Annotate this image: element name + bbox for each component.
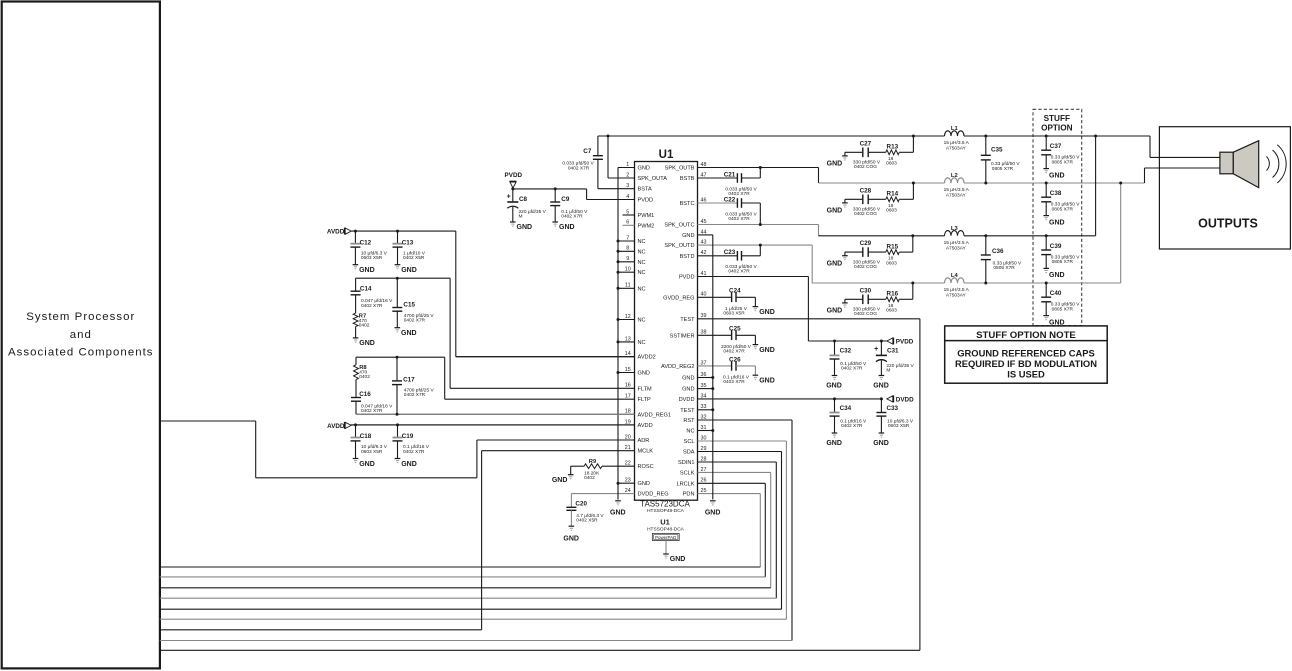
svg-text:26: 26 bbox=[701, 478, 707, 484]
pin 47 (BSTB) bbox=[680, 172, 738, 182]
svg-text:HTSSOP48-DCA: HTSSOP48-DCA bbox=[647, 527, 685, 533]
svg-text:SCL: SCL bbox=[684, 439, 695, 445]
junction pin 7 bbox=[617, 240, 620, 243]
svg-text:GND: GND bbox=[401, 461, 417, 468]
svg-text:0603 X5R: 0603 X5R bbox=[361, 449, 383, 455]
ground (C29) bbox=[827, 252, 848, 267]
resistor R14 bbox=[886, 191, 900, 214]
capacitor C14 bbox=[351, 278, 394, 313]
svg-text:0805 X7R: 0805 X7R bbox=[992, 166, 1014, 172]
wire R7 gnd bbox=[355, 327, 357, 338]
wire SPK_OUTA vertical bbox=[607, 136, 609, 178]
junction pin 15 bbox=[617, 371, 620, 374]
svg-text:15 μH/3.5 A: 15 μH/3.5 A bbox=[944, 240, 970, 246]
capacitor C9 bbox=[550, 189, 588, 222]
op-amp U1 body (TAS5723DCA) bbox=[635, 149, 698, 500]
wire SDIN1 bus bbox=[160, 462, 777, 598]
svg-text:15 μH/3.5 A: 15 μH/3.5 A bbox=[944, 287, 970, 293]
svg-text:16: 16 bbox=[625, 383, 631, 389]
pin 48 (SPK_OUTB) bbox=[665, 162, 819, 172]
pin 7 (NC) bbox=[618, 235, 646, 245]
svg-text:12: 12 bbox=[625, 314, 631, 320]
svg-text:GND: GND bbox=[1049, 219, 1065, 226]
svg-text:8: 8 bbox=[626, 246, 629, 252]
ground (C32) bbox=[826, 376, 842, 390]
svg-text:39: 39 bbox=[701, 313, 707, 319]
ground (C9) bbox=[552, 222, 574, 231]
svg-text:GND: GND bbox=[670, 556, 686, 563]
resistor R13 bbox=[886, 144, 900, 167]
svg-text:C23: C23 bbox=[724, 249, 736, 256]
pin 30 (SCL) bbox=[684, 435, 787, 445]
svg-text:SPK_OUTD: SPK_OUTD bbox=[664, 243, 694, 249]
junction pin 9 bbox=[617, 260, 620, 263]
svg-text:L1: L1 bbox=[951, 126, 959, 132]
junction pin 11 bbox=[617, 287, 620, 290]
svg-text:0402 X7R: 0402 X7R bbox=[361, 408, 383, 414]
svg-text:GND: GND bbox=[826, 440, 842, 447]
wire RST bus bbox=[160, 420, 792, 641]
svg-text:R13: R13 bbox=[887, 144, 899, 151]
capacitor C20 bbox=[566, 494, 604, 527]
svg-text:GND: GND bbox=[638, 166, 650, 172]
wire TEST bus bbox=[160, 319, 920, 651]
svg-text:0402 X7R: 0402 X7R bbox=[568, 165, 590, 171]
ground (left bus) bbox=[610, 501, 626, 517]
junction pin 36 bbox=[711, 376, 714, 379]
svg-text:0402 COG: 0402 COG bbox=[854, 211, 877, 217]
svg-text:GND: GND bbox=[827, 208, 843, 215]
junction C33 bbox=[880, 397, 883, 400]
svg-text:0402 X7R: 0402 X7R bbox=[404, 392, 426, 398]
svg-text:PWM2: PWM2 bbox=[638, 223, 655, 229]
svg-text:5: 5 bbox=[626, 209, 629, 215]
junction C29 bbox=[911, 234, 914, 237]
pin 9 (NC) bbox=[618, 256, 646, 266]
pin 34 (DVDD) bbox=[679, 393, 882, 403]
svg-text:GND: GND bbox=[1049, 319, 1065, 326]
svg-text:C37: C37 bbox=[1050, 143, 1062, 150]
ground (C37) bbox=[1043, 169, 1064, 180]
svg-text:31: 31 bbox=[701, 425, 707, 431]
ground (PowerPAD) bbox=[663, 554, 685, 563]
svg-text:FLTP: FLTP bbox=[638, 397, 652, 403]
pin 17 (FLTP) bbox=[445, 394, 651, 404]
svg-text:GROUND REFERENCED CAPS: GROUND REFERENCED CAPS bbox=[957, 347, 1095, 358]
svg-text:PVDD: PVDD bbox=[896, 339, 914, 346]
ground (C33) bbox=[873, 433, 889, 447]
svg-text:C32: C32 bbox=[840, 347, 852, 354]
svg-text:C22: C22 bbox=[724, 196, 736, 203]
svg-text:PVDD: PVDD bbox=[505, 172, 523, 179]
svg-text:C40: C40 bbox=[1050, 290, 1062, 297]
svg-text:AVDD: AVDD bbox=[327, 229, 345, 236]
svg-text:2: 2 bbox=[626, 172, 629, 178]
junction pin 33 bbox=[711, 408, 714, 411]
capacitor C25 bbox=[721, 326, 755, 355]
svg-text:0603 X5R: 0603 X5R bbox=[888, 423, 910, 429]
svg-text:27: 27 bbox=[701, 467, 707, 473]
pin 26 (LRCLK) bbox=[676, 478, 765, 488]
pin 22 (ROSC) bbox=[602, 461, 654, 471]
resistor R8 bbox=[354, 357, 371, 380]
svg-text:C20: C20 bbox=[575, 501, 587, 508]
svg-text:C29: C29 bbox=[860, 240, 872, 247]
svg-text:+: + bbox=[507, 194, 511, 201]
svg-text:0805 X7R: 0805 X7R bbox=[1052, 206, 1074, 212]
svg-text:NC: NC bbox=[638, 239, 646, 245]
svg-text:BSTD: BSTD bbox=[680, 254, 695, 260]
capacitor C32 bbox=[830, 341, 867, 376]
ground (C13) bbox=[395, 265, 417, 274]
pin 3 (BSTA) bbox=[598, 183, 652, 193]
svg-text:L3: L3 bbox=[951, 226, 959, 232]
svg-text:SSTIMER: SSTIMER bbox=[670, 333, 695, 339]
svg-text:AVDD: AVDD bbox=[638, 423, 653, 429]
svg-text:AVDD: AVDD bbox=[327, 423, 345, 430]
wire rail OUTC b bbox=[964, 235, 1096, 237]
pin 8 (NC) bbox=[618, 246, 646, 256]
capacitor C26 bbox=[723, 356, 755, 385]
capacitor C16 bbox=[351, 380, 393, 415]
svg-text:0402 X7R: 0402 X7R bbox=[361, 303, 383, 309]
svg-text:U1: U1 bbox=[659, 149, 674, 161]
svg-text:0603 X5R: 0603 X5R bbox=[723, 311, 745, 317]
svg-text:SPK_OUTA: SPK_OUTA bbox=[638, 176, 668, 182]
wire AVDD rail bbox=[351, 231, 634, 357]
svg-text:0805 X7R: 0805 X7R bbox=[993, 265, 1015, 271]
capacitor C27 bbox=[845, 140, 886, 170]
pin 6 (PWM2) bbox=[623, 220, 655, 230]
ground (R7) bbox=[353, 338, 375, 347]
wire SCL bus bbox=[160, 441, 787, 619]
wire OUTC up to OUTA bbox=[1095, 136, 1097, 236]
svg-text:M: M bbox=[886, 368, 890, 374]
node DVDD bbox=[887, 396, 914, 404]
svg-text:C39: C39 bbox=[1050, 243, 1062, 250]
pin 39 (TEST) bbox=[680, 313, 920, 323]
svg-text:GND: GND bbox=[682, 387, 694, 393]
svg-text:IS USED: IS USED bbox=[1007, 369, 1045, 380]
resistor R7 bbox=[353, 313, 370, 328]
svg-text:BSTA: BSTA bbox=[638, 187, 652, 193]
svg-text:C31: C31 bbox=[887, 347, 899, 354]
svg-text:NC: NC bbox=[638, 340, 646, 346]
junction C27 bbox=[912, 135, 915, 138]
pin 41 (PVDD) bbox=[679, 271, 808, 281]
inductor L1 bbox=[944, 126, 970, 152]
svg-text:45: 45 bbox=[701, 219, 707, 225]
svg-text:0402 X5R: 0402 X5R bbox=[576, 518, 598, 524]
svg-text:29: 29 bbox=[701, 446, 707, 452]
svg-text:SDA: SDA bbox=[683, 450, 695, 456]
svg-text:0402 X7R: 0402 X7R bbox=[561, 213, 583, 219]
svg-text:C12: C12 bbox=[360, 239, 372, 246]
svg-text:GND: GND bbox=[359, 461, 375, 468]
capacitor C18 bbox=[351, 425, 388, 459]
wire SPK_OUTC feed bbox=[818, 225, 820, 236]
wire PDN bus bbox=[160, 494, 761, 567]
svg-text:GND: GND bbox=[559, 224, 575, 231]
ground (right bus) bbox=[705, 501, 721, 517]
svg-text:A7503AY: A7503AY bbox=[946, 193, 967, 199]
pin 31 (NC) bbox=[686, 425, 712, 435]
svg-text:41: 41 bbox=[701, 271, 707, 277]
wire OUTB to speaker bbox=[1145, 168, 1220, 183]
svg-text:C36: C36 bbox=[992, 248, 1004, 255]
wire SCLK bus bbox=[160, 472, 771, 587]
junction C17 bottom bbox=[396, 413, 399, 416]
capacitor C23 bbox=[724, 244, 762, 275]
svg-text:0603: 0603 bbox=[886, 208, 897, 214]
svg-text:C38: C38 bbox=[1050, 190, 1062, 197]
svg-text:0805 X7R: 0805 X7R bbox=[1052, 159, 1074, 165]
pin 38 (SSTIMER) bbox=[670, 330, 732, 340]
pin 2 (SPK_OUTA) bbox=[608, 172, 667, 182]
pin 33 (TEST) bbox=[680, 404, 713, 414]
wire rail OUTA c bbox=[964, 135, 1150, 137]
ground (C28) bbox=[827, 199, 848, 214]
svg-text:AVDD_REG2: AVDD_REG2 bbox=[661, 364, 694, 370]
svg-text:FLTM: FLTM bbox=[638, 386, 653, 392]
capacitor C35 bbox=[981, 135, 1021, 185]
svg-text:L4: L4 bbox=[951, 273, 959, 279]
svg-text:OPTION: OPTION bbox=[1041, 123, 1072, 132]
svg-text:0402 X7R: 0402 X7R bbox=[723, 349, 745, 355]
inductor L4 bbox=[944, 273, 970, 299]
capacitor C15 bbox=[392, 278, 434, 328]
svg-text:33: 33 bbox=[701, 404, 707, 410]
STUFF OPTION NOTE box bbox=[945, 326, 1107, 383]
junction C18 bbox=[354, 423, 357, 426]
svg-text:C25: C25 bbox=[729, 326, 741, 333]
svg-text:C13: C13 bbox=[402, 239, 414, 246]
svg-text:30: 30 bbox=[701, 435, 707, 441]
svg-text:1: 1 bbox=[626, 162, 629, 168]
ground (C39) bbox=[1043, 268, 1064, 279]
pin 32 (RST) bbox=[683, 414, 792, 424]
System Processor block bbox=[2, 2, 160, 669]
svg-text:GND: GND bbox=[873, 440, 889, 447]
svg-text:0402 X7R: 0402 X7R bbox=[728, 269, 750, 275]
capacitor C38 bbox=[1041, 182, 1080, 216]
svg-text:C35: C35 bbox=[991, 147, 1003, 154]
ground (C27) bbox=[827, 152, 848, 167]
svg-text:L2: L2 bbox=[951, 173, 958, 179]
U1 PowerPAD bbox=[647, 517, 685, 540]
svg-text:R14: R14 bbox=[887, 191, 899, 198]
junction pin 31 bbox=[711, 429, 714, 432]
pin 28 (SDIN1) bbox=[678, 456, 776, 466]
svg-text:LRCLK: LRCLK bbox=[676, 481, 694, 487]
svg-text:M: M bbox=[519, 213, 523, 219]
wire rail OUTA bbox=[598, 135, 914, 137]
junction pin 23 bbox=[617, 482, 620, 485]
svg-text:44: 44 bbox=[701, 229, 707, 235]
svg-text:GND: GND bbox=[682, 376, 694, 382]
svg-text:0402 X7R: 0402 X7R bbox=[728, 216, 750, 222]
svg-text:6: 6 bbox=[626, 220, 629, 226]
svg-text:0402 X7R: 0402 X7R bbox=[723, 379, 745, 385]
svg-text:ADR: ADR bbox=[638, 438, 650, 444]
svg-text:GND: GND bbox=[517, 224, 533, 231]
svg-text:GND: GND bbox=[759, 309, 775, 316]
svg-text:A7503AY: A7503AY bbox=[946, 146, 967, 152]
wire LRCLK bus bbox=[160, 483, 766, 577]
svg-text:46: 46 bbox=[701, 197, 707, 203]
wire OUTD up to OUTB bbox=[1120, 183, 1122, 283]
svg-text:SCLK: SCLK bbox=[680, 470, 695, 476]
svg-text:TEST: TEST bbox=[680, 317, 695, 323]
svg-text:PWM1: PWM1 bbox=[638, 213, 655, 219]
wire PowerPAD gnd bbox=[665, 541, 667, 555]
svg-text:GND: GND bbox=[1049, 272, 1065, 279]
ground (C8) bbox=[510, 222, 532, 231]
pin 11 (NC) bbox=[618, 283, 646, 293]
svg-text:15 μH/3.5 A: 15 μH/3.5 A bbox=[944, 140, 970, 146]
svg-text:0402 X5R: 0402 X5R bbox=[403, 255, 425, 261]
ground (R9) bbox=[552, 475, 574, 485]
wire SPK_OUTB feed bbox=[760, 168, 818, 184]
svg-text:REQUIRED IF BD MODULATION: REQUIRED IF BD MODULATION bbox=[955, 358, 1097, 369]
ground (C40) bbox=[1043, 316, 1064, 327]
svg-text:0402 X7R: 0402 X7R bbox=[404, 318, 426, 324]
OUTPUTS block bbox=[1159, 127, 1290, 249]
wire PVDD branch bbox=[808, 277, 886, 342]
svg-text:System Processor: System Processor bbox=[26, 311, 135, 323]
wire C28 branch bbox=[899, 183, 913, 199]
svg-text:34: 34 bbox=[701, 393, 707, 399]
svg-text:GND: GND bbox=[827, 260, 843, 267]
wire rail OUTD bbox=[812, 282, 944, 284]
pin 25 (PDN) bbox=[683, 488, 761, 498]
capacitor C37 bbox=[1041, 135, 1080, 169]
svg-text:0402 COG: 0402 COG bbox=[854, 264, 877, 270]
svg-text:NC: NC bbox=[686, 429, 694, 435]
svg-text:GND: GND bbox=[359, 267, 375, 274]
junction SPK_OUTA rail bbox=[607, 135, 610, 138]
pin 42 (BSTD) bbox=[680, 250, 738, 260]
svg-text:C26: C26 bbox=[729, 356, 741, 363]
svg-text:3: 3 bbox=[626, 183, 629, 189]
svg-text:GND: GND bbox=[827, 161, 843, 168]
svg-text:0402 X7R: 0402 X7R bbox=[841, 423, 863, 429]
svg-text:DVDD: DVDD bbox=[679, 397, 695, 403]
svg-text:GND: GND bbox=[873, 382, 889, 389]
svg-text:9: 9 bbox=[626, 256, 629, 262]
pin 46 (BSTC) bbox=[680, 197, 738, 207]
svg-text:GND: GND bbox=[638, 371, 650, 377]
svg-text:RST: RST bbox=[683, 418, 695, 424]
pin 29 (SDA) bbox=[683, 446, 782, 456]
junction C9 bbox=[554, 187, 557, 190]
svg-text:37: 37 bbox=[701, 360, 707, 366]
pin 27 (SCLK) bbox=[680, 467, 771, 477]
inductor L2 bbox=[944, 173, 970, 199]
svg-text:C21: C21 bbox=[724, 171, 736, 178]
junction pin 13 bbox=[617, 340, 620, 343]
svg-text:0402 X7R: 0402 X7R bbox=[403, 449, 425, 455]
svg-text:GND: GND bbox=[827, 308, 843, 315]
svg-text:GND: GND bbox=[401, 267, 417, 274]
svg-text:C16: C16 bbox=[359, 391, 371, 398]
inductor L3 bbox=[944, 226, 970, 252]
pin 1 (GND) bbox=[618, 162, 650, 172]
svg-text:TAS5723DCA: TAS5723DCA bbox=[640, 500, 690, 509]
capacitor C8 bbox=[507, 189, 547, 222]
wire rail OUTB bbox=[819, 182, 945, 184]
pin 10 (NC) bbox=[618, 267, 646, 277]
capacitor C33 bbox=[876, 399, 913, 433]
svg-text:C14: C14 bbox=[360, 286, 372, 293]
junction C19 bbox=[396, 423, 399, 426]
svg-text:C15: C15 bbox=[403, 301, 415, 308]
svg-text:13: 13 bbox=[625, 336, 631, 342]
ground (C12) bbox=[353, 265, 375, 274]
svg-text:R15: R15 bbox=[887, 243, 899, 250]
pin 23 (GND) bbox=[618, 478, 650, 488]
pin 14 (AVDD2) bbox=[456, 351, 656, 361]
ground (C19) bbox=[395, 459, 417, 468]
svg-text:0603: 0603 bbox=[886, 260, 897, 266]
capacitor C31 bbox=[874, 341, 914, 376]
svg-text:20: 20 bbox=[625, 434, 631, 440]
svg-text:PowerPAD: PowerPAD bbox=[655, 535, 676, 540]
wire C27 branch bbox=[899, 136, 913, 152]
pin 4 (PVDD) bbox=[587, 194, 653, 204]
svg-text:25: 25 bbox=[701, 488, 707, 494]
svg-text:0402: 0402 bbox=[584, 475, 595, 481]
pin 44 (GND) bbox=[682, 229, 713, 239]
ground (C20) bbox=[563, 526, 579, 542]
svg-text:SPK_OUTC: SPK_OUTC bbox=[664, 223, 694, 229]
svg-text:GVDD_REG: GVDD_REG bbox=[663, 295, 694, 301]
svg-text:0805 X7R: 0805 X7R bbox=[1052, 306, 1074, 312]
svg-text:C27: C27 bbox=[860, 140, 872, 147]
svg-text:Associated Components: Associated Components bbox=[8, 346, 154, 358]
pin 36 (GND) bbox=[682, 372, 713, 382]
ground (C30) bbox=[827, 299, 848, 314]
svg-text:C34: C34 bbox=[840, 405, 852, 412]
junction C32 bbox=[833, 340, 836, 343]
junction C30 bbox=[911, 282, 914, 285]
svg-text:NC: NC bbox=[638, 286, 646, 292]
pin 24 (DVDD_REG) bbox=[571, 488, 668, 498]
pin 21 (MCLK) bbox=[482, 445, 654, 455]
svg-text:R16: R16 bbox=[887, 291, 899, 298]
svg-text:0402 X7R: 0402 X7R bbox=[841, 366, 863, 372]
pin 13 (NC) bbox=[618, 336, 646, 346]
node AVDD (2) bbox=[327, 422, 351, 430]
svg-text:TEST: TEST bbox=[680, 408, 695, 414]
junction pin 8 bbox=[617, 250, 620, 253]
wire C30 branch bbox=[899, 283, 913, 299]
capacitor C24 bbox=[723, 288, 755, 317]
svg-text:11: 11 bbox=[625, 283, 631, 289]
resistor R9 bbox=[584, 459, 602, 481]
wire SDA bus bbox=[160, 452, 782, 610]
svg-text:AVDD2: AVDD2 bbox=[638, 355, 656, 361]
node PVDD (right) bbox=[887, 338, 914, 346]
capacitor C28 bbox=[845, 187, 886, 217]
wire AVDD_REG1 bbox=[356, 413, 635, 415]
svg-text:A7503AY: A7503AY bbox=[946, 293, 967, 299]
svg-text:GND: GND bbox=[1049, 172, 1065, 179]
capacitor C13 bbox=[393, 231, 426, 265]
svg-text:42: 42 bbox=[701, 250, 707, 256]
svg-text:AVDD_REG1: AVDD_REG1 bbox=[638, 412, 671, 418]
wire rail OUTD b bbox=[964, 282, 1121, 284]
